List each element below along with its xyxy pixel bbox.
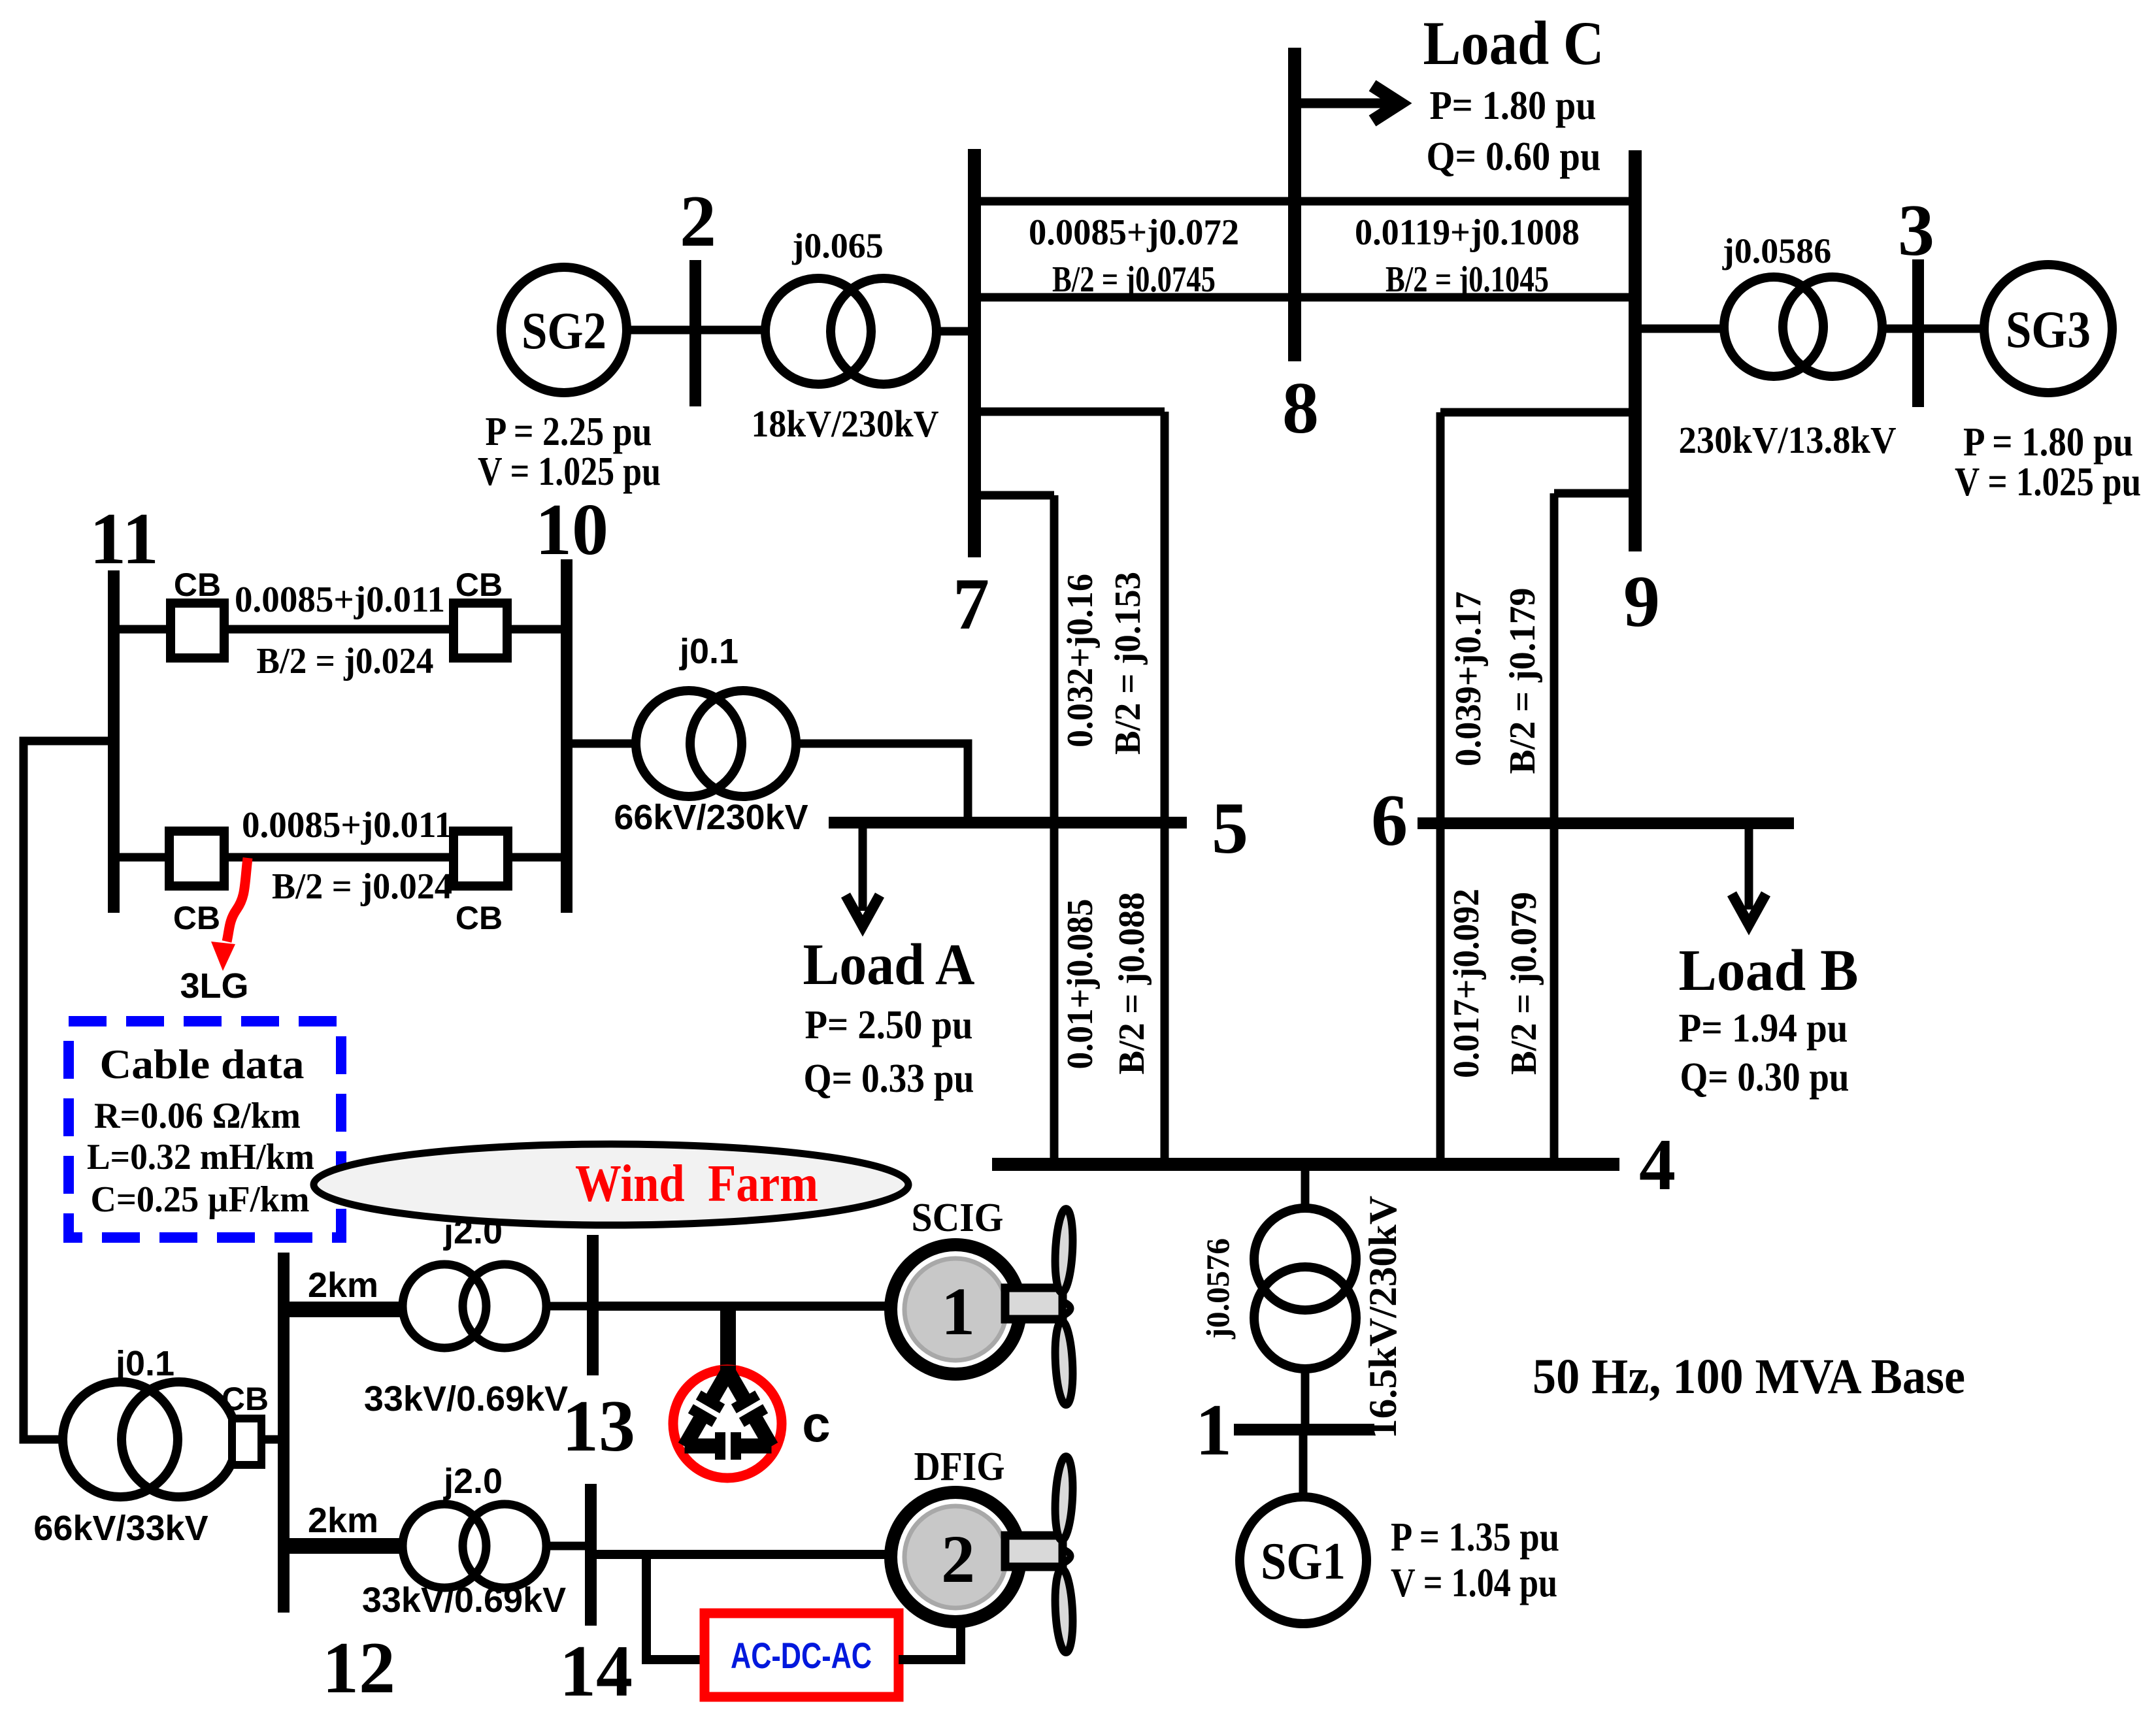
wire stub bus7 to line 5-7 left conductor	[974, 491, 1054, 500]
line 4-6 right conductor	[1550, 823, 1559, 1164]
line 6-9 left conductor	[1436, 412, 1445, 823]
svg-text:SG2: SG2	[522, 303, 606, 360]
svg-text:0.032+j0.16: 0.032+j0.16	[1060, 574, 1101, 747]
generator SG1	[1240, 1497, 1367, 1624]
wire bus 9 to transformer T3	[1635, 325, 1725, 333]
svg-text:CB: CB	[456, 566, 503, 603]
svg-text:Load C: Load C	[1423, 8, 1604, 78]
transformer T5 66kV/230kV secondary winding	[690, 691, 796, 796]
bus 6	[1418, 817, 1794, 829]
svg-text:8: 8	[1282, 368, 1319, 449]
svg-text:10: 10	[535, 489, 608, 570]
svg-text:R=0.06 Ω/km: R=0.06 Ω/km	[94, 1096, 301, 1136]
transformer T14 33kV/0.69kV primary winding	[403, 1504, 486, 1588]
transformer T13 33kV/0.69kV primary winding	[403, 1264, 486, 1348]
svg-text:P = 1.80 pu: P = 1.80 pu	[1963, 420, 2133, 465]
svg-text:AC-DC-AC: AC-DC-AC	[731, 1635, 872, 1676]
wire DFIG branch to converter	[646, 1554, 705, 1660]
svg-text:2km: 2km	[308, 1501, 378, 1540]
svg-text:1: 1	[941, 1274, 975, 1349]
svg-text:Wind Farm: Wind Farm	[575, 1155, 818, 1213]
wire stub bus9 to line 6-9 left conductor	[1440, 408, 1635, 417]
svg-text:B/2 = j0.088: B/2 = j0.088	[1112, 893, 1152, 1075]
wire bus 10 to transformer T5	[567, 740, 639, 748]
svg-text:CB: CB	[174, 566, 221, 603]
wire converter to DFIG rotor	[899, 1619, 961, 1660]
svg-text:B/2 = j0.079: B/2 = j0.079	[1504, 892, 1544, 1075]
cable 10-11 upper conductor	[224, 625, 454, 634]
svg-text:c: c	[802, 1395, 830, 1452]
transformer T6 66kV/33kV secondary winding	[122, 1382, 237, 1497]
bus 8	[1288, 48, 1301, 361]
line 7-8 / 8-9 lower conductor	[974, 293, 1635, 302]
svg-text:CB: CB	[222, 1381, 269, 1417]
bus 2	[689, 260, 701, 406]
wind generator SCIG unit	[891, 1208, 1074, 1405]
svg-text:12: 12	[322, 1628, 395, 1709]
svg-text:13: 13	[562, 1386, 635, 1467]
transformer T14 33kV/0.69kV secondary winding	[463, 1504, 546, 1588]
svg-text:P= 2.50 pu: P= 2.50 pu	[805, 1003, 973, 1047]
bus 3	[1912, 259, 1924, 407]
capacitor C symbol	[673, 1366, 782, 1478]
line 4-5 right conductor	[1161, 823, 1169, 1164]
wire bus 11 to CB1	[114, 625, 171, 634]
svg-text:0.01+j0.085: 0.01+j0.085	[1060, 899, 1101, 1070]
svg-text:L=0.32 mH/km: L=0.32 mH/km	[87, 1137, 314, 1177]
svg-text:33kV/0.69kV: 33kV/0.69kV	[362, 1581, 566, 1620]
wire T2 to bus 7	[937, 327, 974, 336]
transformer T13 33kV/0.69kV secondary winding	[463, 1264, 546, 1348]
wire CB4 to bus 10	[508, 853, 567, 862]
svg-text:0.0085+j0.011: 0.0085+j0.011	[242, 805, 452, 845]
circuit breaker CB5	[232, 1419, 261, 1465]
bus 11	[108, 570, 120, 913]
svg-text:B/2 = j0.024: B/2 = j0.024	[257, 641, 434, 681]
svg-text:j2.0: j2.0	[443, 1462, 503, 1501]
svg-text:V = 1.025 pu: V = 1.025 pu	[478, 450, 661, 494]
wire T14 to bus 14	[546, 1542, 591, 1551]
wire T3 to bus 3	[1882, 325, 1918, 333]
svg-text:B/2 = j0.0745: B/2 = j0.0745	[1052, 259, 1216, 300]
svg-text:SG3: SG3	[2006, 301, 2091, 359]
svg-text:230kV/13.8kV: 230kV/13.8kV	[1679, 419, 1897, 461]
svg-text:j0.0586: j0.0586	[1722, 231, 1831, 271]
svg-text:Q= 0.33 pu: Q= 0.33 pu	[804, 1057, 974, 1101]
transformer T3 230kV/13.8kV secondary winding	[1783, 277, 1882, 376]
transformer T2 18kV/230kV primary winding	[765, 278, 871, 384]
wire bus 1 to SG1	[1299, 1430, 1308, 1498]
svg-text:16.5kV/230kV: 16.5kV/230kV	[1361, 1196, 1404, 1439]
svg-text:j0.1: j0.1	[679, 632, 738, 671]
wire CB2 to bus 10	[507, 625, 567, 634]
svg-text:P = 2.25 pu: P = 2.25 pu	[486, 410, 652, 454]
svg-text:11: 11	[90, 499, 159, 580]
wire stub bus7 to line 5-7 right conductor	[974, 408, 1165, 416]
wire bus 13 to SCIG	[593, 1302, 895, 1311]
svg-text:B/2 = j0.024: B/2 = j0.024	[272, 866, 452, 907]
svg-text:0.0085+j0.072: 0.0085+j0.072	[1029, 212, 1239, 253]
svg-text:18kV/230kV: 18kV/230kV	[752, 402, 939, 445]
cable 2km to bus 13	[284, 1302, 404, 1317]
line 5-7 right conductor	[1161, 412, 1169, 823]
cable 2km to bus 14	[284, 1538, 404, 1554]
generator SG3	[1984, 265, 2112, 393]
line 4-5 left conductor	[1050, 823, 1059, 1164]
svg-text:33kV/0.69kV: 33kV/0.69kV	[364, 1379, 568, 1419]
wire T13 to bus 13	[546, 1302, 593, 1311]
svg-text:5: 5	[1212, 788, 1248, 869]
load A arrow	[859, 825, 867, 911]
circuit breaker CB2	[454, 603, 507, 658]
bus 4	[992, 1158, 1619, 1171]
svg-text:Q= 0.60 pu: Q= 0.60 pu	[1427, 135, 1601, 179]
svg-text:0.0085+j0.011: 0.0085+j0.011	[235, 580, 445, 620]
bus 7	[968, 149, 981, 557]
svg-text:V = 1.025 pu: V = 1.025 pu	[1955, 460, 2141, 504]
transformer T6 66kV/33kV primary winding	[63, 1382, 178, 1497]
circuit breaker CB1	[171, 603, 224, 658]
svg-text:CB: CB	[456, 900, 503, 936]
svg-text:66kV/230kV: 66kV/230kV	[614, 798, 808, 837]
wire bus 2 to transformer T2	[695, 326, 768, 335]
svg-text:14: 14	[559, 1631, 633, 1712]
line 6-9 right conductor	[1550, 493, 1559, 823]
wire SG2 to bus 2	[627, 326, 695, 335]
svg-text:0.0119+j0.1008: 0.0119+j0.1008	[1355, 212, 1580, 253]
svg-text:P= 1.80 pu: P= 1.80 pu	[1430, 84, 1597, 128]
wire bus 3 to SG3	[1918, 325, 1984, 333]
fault 3LG red arrow	[227, 858, 248, 942]
svg-text:Load B: Load B	[1679, 938, 1859, 1003]
svg-text:3LG: 3LG	[180, 966, 248, 1006]
svg-text:B/2 = j0.1045: B/2 = j0.1045	[1385, 259, 1549, 300]
bus 5	[829, 817, 1187, 829]
svg-text:9: 9	[1623, 561, 1660, 642]
svg-text:Cable data: Cable data	[100, 1041, 305, 1087]
load B arrow	[1745, 825, 1753, 910]
svg-text:Q= 0.30 pu: Q= 0.30 pu	[1680, 1055, 1849, 1100]
transformer T1 16.5kV/230kV secondary winding	[1254, 1267, 1356, 1369]
wire bus 4 to transformer T1	[1301, 1164, 1310, 1211]
transformer T2 18kV/230kV secondary winding	[831, 278, 937, 384]
bus 14	[585, 1484, 597, 1626]
wire T6 to CB5	[236, 1436, 284, 1444]
svg-text:B/2 = j0.179: B/2 = j0.179	[1502, 588, 1543, 774]
svg-text:0.039+j0.17: 0.039+j0.17	[1448, 591, 1489, 766]
wire T1 to bus 1	[1301, 1369, 1310, 1430]
wire bus 11 to CB3	[114, 853, 169, 862]
svg-text:1: 1	[1195, 1390, 1232, 1471]
svg-text:j0.0576: j0.0576	[1199, 1238, 1236, 1339]
bus 12	[278, 1253, 290, 1613]
svg-text:Load A: Load A	[803, 932, 975, 997]
svg-text:3: 3	[1898, 190, 1934, 271]
svg-text:B/2 = j0.153: B/2 = j0.153	[1108, 572, 1148, 755]
svg-text:0.017+j0.092: 0.017+j0.092	[1446, 889, 1487, 1078]
svg-text:2km: 2km	[308, 1266, 378, 1305]
wire bus 14 to DFIG	[591, 1550, 895, 1559]
svg-text:V = 1.04 pu: V = 1.04 pu	[1391, 1561, 1557, 1605]
line 4-6 left conductor	[1436, 823, 1445, 1164]
svg-text:C=0.25 µF/km: C=0.25 µF/km	[91, 1179, 310, 1220]
svg-text:7: 7	[953, 564, 989, 645]
converter AC-DC-AC box	[705, 1613, 899, 1697]
svg-text:j0.1: j0.1	[115, 1344, 174, 1383]
wire drop to capacitor C	[720, 1306, 736, 1375]
line 5-7 left conductor	[1050, 495, 1059, 823]
circuit breaker CB3	[169, 831, 224, 886]
svg-text:50 Hz, 100 MVA Base: 50 Hz, 100 MVA Base	[1533, 1349, 1965, 1404]
wind generator DFIG unit	[891, 1456, 1074, 1652]
wire stub bus9 to line 6-9 right conductor	[1554, 489, 1635, 498]
bus 1	[1234, 1424, 1374, 1436]
svg-text:j0.065: j0.065	[791, 226, 883, 265]
transformer T1 16.5kV/230kV primary winding	[1254, 1208, 1356, 1310]
wire bus 11 to feeder drop	[24, 741, 114, 1439]
wind farm ellipse	[314, 1144, 908, 1225]
svg-text:P = 1.35 pu: P = 1.35 pu	[1391, 1515, 1559, 1560]
line 7-8 / 8-9 upper conductor	[974, 197, 1635, 206]
wire T5 to bus 5	[796, 744, 968, 823]
svg-text:2: 2	[680, 181, 716, 262]
bus 10	[561, 559, 572, 913]
load C arrow	[1297, 99, 1389, 108]
circuit breaker CB4	[454, 831, 508, 886]
svg-text:4: 4	[1639, 1124, 1676, 1206]
svg-text:SG1: SG1	[1261, 1533, 1346, 1590]
svg-text:DFIG: DFIG	[914, 1445, 1005, 1489]
cable data box	[69, 1021, 341, 1238]
svg-text:SCIG: SCIG	[912, 1196, 1004, 1240]
svg-text:6: 6	[1371, 780, 1408, 861]
generator SG2	[501, 267, 627, 393]
transformer T3 230kV/13.8kV primary winding	[1724, 277, 1823, 376]
svg-text:P= 1.94 pu: P= 1.94 pu	[1679, 1006, 1848, 1051]
bus 13	[587, 1235, 599, 1375]
cable 10-11 lower conductor	[224, 853, 454, 862]
transformer T5 66kV/230kV primary winding	[636, 691, 742, 796]
svg-text:CB: CB	[173, 900, 220, 936]
svg-text:2: 2	[941, 1522, 975, 1597]
bus 9	[1629, 150, 1642, 551]
svg-text:66kV/33kV: 66kV/33kV	[33, 1509, 208, 1548]
